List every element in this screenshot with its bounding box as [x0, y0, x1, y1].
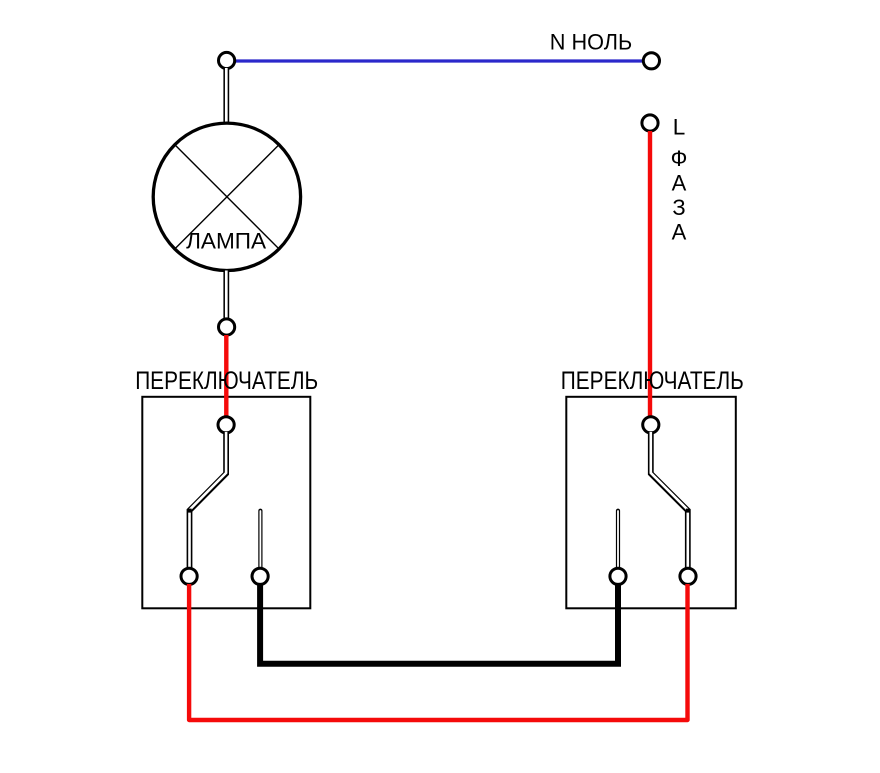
svg-text:Ф: Ф: [671, 146, 688, 171]
svg-text:З: З: [672, 195, 685, 220]
lamp circle: [153, 123, 300, 270]
right switch bottom node 2: [680, 568, 696, 584]
left switch common node: [218, 417, 234, 433]
svg-text:ПЕРЕКЛЮЧАТЕЛЬ: ПЕРЕКЛЮЧАТЕЛЬ: [561, 367, 744, 395]
wire lamp top lead (double line): [223, 68, 229, 124]
right switch open contact stub: [616, 511, 620, 568]
node N (right end of neutral wire): [643, 53, 659, 69]
wire traveller red (left sw to right sw): [189, 584, 687, 720]
left lever contact dot: [188, 509, 192, 513]
svg-text:ПЕРЕКЛЮЧАТЕЛЬ: ПЕРЕКЛЮЧАТЕЛЬ: [135, 367, 318, 395]
node top-left (lamp to neutral): [219, 52, 235, 68]
lamp cross line 2: [175, 145, 280, 250]
left switch bottom node 1: [181, 568, 197, 584]
svg-text:N НОЛЬ: N НОЛЬ: [550, 30, 633, 55]
wire N (blue neutral wire): [235, 59, 644, 62]
label ФАЗА (vertical): [671, 146, 688, 245]
node below lamp: [219, 319, 235, 335]
right switch common node: [643, 417, 659, 433]
right lever contact dot: [686, 509, 690, 513]
svg-text:А: А: [672, 220, 687, 245]
svg-text:L: L: [673, 115, 686, 140]
wire phase L to right switch (red): [648, 131, 652, 418]
wire lamp bottom lead (double line): [223, 271, 229, 320]
left switch lever (double line): [190, 432, 227, 569]
node L (phase input): [642, 115, 658, 131]
right switch lever (double line): [651, 432, 688, 569]
svg-text:ЛАМПА: ЛАМПА: [186, 229, 266, 254]
left switch box: [142, 397, 310, 609]
wire lamp node to left switch (red): [224, 335, 228, 418]
right switch box: [566, 397, 736, 609]
right switch bottom node 1: [610, 568, 626, 584]
wire traveller black (left sw to right sw): [260, 585, 618, 664]
lamp cross line 1: [175, 145, 280, 250]
svg-text:А: А: [672, 171, 687, 196]
left switch bottom node 2: [252, 568, 268, 584]
left switch open contact stub: [258, 511, 262, 568]
